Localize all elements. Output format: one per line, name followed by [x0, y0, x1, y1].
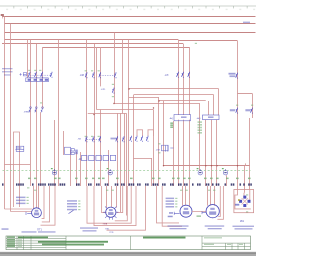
- PE connection circle x110.25: [108, 171, 112, 175]
- stub: [245, 163, 247, 165]
- label: [166, 206, 175, 208]
- motor2 SE lead: [115, 186, 128, 221]
- wire: [117, 113, 119, 186]
- wire: [208, 101, 210, 115]
- svg-text:ПЛВ: ПЛВ: [103, 224, 108, 226]
- label: [67, 206, 77, 208]
- breaker QF pole 3: [41, 72, 43, 78]
- wire: [133, 95, 135, 186]
- thermal relay box 5: [110, 155, 115, 160]
- pin number texts: [28, 178, 31, 180]
- wire: [10, 24, 12, 212]
- wire: [192, 211, 206, 213]
- red return wire: [107, 186, 146, 230]
- wire: [126, 113, 128, 215]
- label: [16, 203, 26, 205]
- motor M3: [180, 205, 192, 217]
- motor2 caption line2: [83, 230, 97, 231]
- breaker QF aux contact: [50, 72, 52, 78]
- doc title line1: [38, 241, 108, 243]
- wire: [27, 40, 29, 78]
- PS1 marks: [75, 150, 78, 155]
- wire: [36, 44, 38, 186]
- motor1 right loops: [42, 186, 44, 219]
- switch 4PV2 contact: [236, 73, 238, 79]
- enclosure loop left: [14, 132, 20, 207]
- pin text: [170, 125, 173, 126]
- pin text: [170, 123, 173, 124]
- wire: [63, 131, 65, 155]
- wire: [36, 186, 38, 208]
- thermal relay box 1: [82, 155, 87, 160]
- bus start label: [1, 14, 4, 16]
- motor2 caption line1: [80, 227, 98, 228]
- wire: [54, 120, 56, 186]
- link H4: [159, 100, 206, 102]
- wire: [207, 186, 209, 206]
- link H1: [129, 88, 219, 90]
- thermal relay box 2: [89, 155, 94, 160]
- contact B: [122, 136, 124, 142]
- motor3 inner: [184, 208, 188, 210]
- wire: [58, 40, 60, 186]
- PE connection circle x200.25: [198, 171, 202, 175]
- contactor KL pole 3: [188, 72, 190, 78]
- svg-text:-АQ: -АQ: [169, 117, 173, 120]
- wire: [182, 186, 184, 206]
- wire: [216, 120, 218, 186]
- wire: [128, 40, 130, 186]
- title block verticals: [17, 236, 245, 250]
- wire: [252, 94, 254, 119]
- motor3 caption line2: [170, 228, 187, 229]
- motor3 left loops: [157, 186, 180, 223]
- bridge internal wiring: [235, 190, 251, 209]
- motor4 caption line1: [205, 225, 225, 226]
- pair label: [111, 138, 117, 140]
- pin text: [198, 127, 203, 129]
- wire: [106, 186, 108, 208]
- link H3b: [129, 97, 159, 99]
- wire: [122, 40, 124, 114]
- left edge tag: [2, 228, 9, 230]
- AQ box inner text: [181, 116, 187, 118]
- svg-text:ПТ1: ПТ1: [37, 229, 42, 232]
- label: [67, 209, 77, 211]
- wire: [178, 120, 180, 186]
- feeder C: [43, 47, 190, 49]
- drop x96.5: [96, 47, 98, 110]
- contact A: [116, 136, 118, 142]
- contact Q4: [146, 136, 148, 142]
- PE dashed line: [3, 170, 251, 172]
- wire: [178, 40, 180, 115]
- wire: [211, 120, 213, 186]
- contact KL1: [112, 88, 114, 94]
- label: [16, 197, 26, 199]
- wire: [158, 98, 160, 187]
- label: [4, 74, 11, 75]
- label: [2, 71, 13, 72]
- contact KV 3: [99, 136, 101, 142]
- aux contact right1: [236, 108, 238, 114]
- device AQ2 box: [203, 115, 220, 120]
- right head: [204, 237, 222, 238]
- device PS1: [65, 147, 71, 154]
- aux 4B1 label: [230, 109, 235, 111]
- motor2 bottom rail 1: [87, 186, 131, 223]
- contact KV 2: [92, 136, 94, 142]
- svg-text:-КМ: -КМ: [156, 150, 160, 152]
- label: [2, 68, 13, 69]
- diode bridge ZB1: [243, 196, 246, 199]
- motor M4: [206, 205, 219, 218]
- contactor KM pole 1: [85, 72, 87, 78]
- switch 4PV2 label line1: [229, 73, 236, 75]
- junction dots: [93, 114, 94, 115]
- right caption line2: [235, 228, 253, 229]
- wire: [185, 186, 187, 205]
- bus L3: [5, 32, 256, 34]
- wire: [33, 186, 35, 209]
- contact Q1: [130, 136, 132, 142]
- label: [16, 200, 26, 202]
- wire: [183, 44, 185, 115]
- wire: [76, 152, 78, 186]
- wire: [94, 44, 96, 186]
- PE connection circle x54.5: [52, 171, 56, 175]
- breaker QF pole 1: [28, 72, 30, 78]
- contact KV 1: [85, 136, 87, 142]
- doc title line2: [42, 244, 104, 246]
- wire: [40, 112, 42, 186]
- pin text: [198, 121, 203, 123]
- label: [67, 200, 77, 202]
- wire: [173, 121, 175, 186]
- wire: [214, 186, 216, 206]
- app background below page: [0, 252, 256, 256]
- coil KM: [162, 145, 169, 151]
- link H5: [114, 103, 200, 105]
- frame ruler numerals: [6, 9, 8, 10]
- breaker QF pole 2: [34, 72, 36, 78]
- wire: [111, 186, 113, 207]
- pin text: [198, 132, 203, 134]
- title block rows left: [6, 238, 66, 247]
- aux 4B2 label: [245, 109, 250, 111]
- wire: [38, 186, 40, 209]
- wire to motor1 from col 4.5: [5, 208, 33, 210]
- doc number: [18, 237, 48, 239]
- pin text: [170, 127, 173, 128]
- frame ruler ticks: [14, 6, 247, 8]
- wire: [210, 186, 212, 205]
- disconnect symbols chain: [20, 73, 27, 76]
- wire: [120, 113, 122, 212]
- title block cell texts: [7, 237, 15, 238]
- wire: [100, 47, 102, 86]
- heater fill: [16, 147, 21, 149]
- bracket mark: [69, 210, 74, 213]
- svg-text:-КЛ: -КЛ: [165, 74, 169, 77]
- pin text: [198, 129, 203, 131]
- pin texts under label: [180, 190, 182, 191]
- wire: [42, 47, 44, 108]
- wire: [199, 104, 201, 171]
- wire: [163, 101, 165, 166]
- wire: [151, 158, 153, 186]
- wire: [244, 166, 246, 193]
- motor2 inner: [109, 209, 113, 211]
- wire: [124, 113, 126, 186]
- svg-text:-КЛ1: -КЛ1: [101, 89, 106, 91]
- motor2 lead stubs: [103, 207, 118, 220]
- contactor KL pole 2: [182, 72, 184, 78]
- feeder A2: [178, 40, 237, 42]
- switch 4PV2 label line2: [230, 75, 236, 77]
- link H2: [134, 94, 214, 96]
- motor3 left lead: [174, 212, 180, 215]
- motor2 W lead: [102, 186, 107, 213]
- label: [166, 198, 175, 200]
- wire: [213, 95, 215, 115]
- pin text: [198, 124, 203, 126]
- bus L1: [2, 16, 256, 18]
- wire: [100, 110, 102, 186]
- wire: [218, 89, 220, 115]
- wire: [86, 40, 88, 186]
- contact Q2: [135, 136, 137, 142]
- thermal relay box 4: [103, 155, 108, 160]
- KM aux contact: [114, 72, 116, 78]
- cable tag NSh: [169, 212, 173, 214]
- contactor KM pole 2: [92, 72, 94, 78]
- breaker linkage dashes: [30, 74, 52, 76]
- wire: [249, 118, 251, 190]
- jumper loop 1: [137, 130, 143, 136]
- motor1 inner: [35, 210, 39, 212]
- jumper loop 2: [148, 130, 154, 136]
- wire: [80, 152, 82, 186]
- wire: [2, 17, 4, 19]
- motor2 E lead: [117, 186, 123, 213]
- thermal block box: [26, 78, 49, 82]
- contactor KM pole 3: [99, 72, 101, 78]
- bus tag right: [243, 22, 250, 24]
- wire: [183, 120, 185, 186]
- motor1 ground lead: [26, 212, 32, 215]
- KM linkage dashes: [100, 75, 114, 77]
- tag 2V-1: [235, 204, 239, 206]
- svg-text:-АQ: -АQ: [197, 117, 201, 120]
- cell1: [227, 244, 231, 245]
- thermal relay box 3: [96, 155, 101, 160]
- PE collector right: [163, 165, 250, 167]
- motor3 caption line1: [168, 225, 189, 226]
- motor4 caption line2: [208, 228, 222, 229]
- wire: [70, 150, 72, 186]
- aux contact right2: [251, 108, 253, 114]
- wire: [237, 41, 239, 190]
- wire: [4, 17, 6, 210]
- cable tag ULK: [168, 216, 173, 218]
- fuse switch 3: [42, 107, 44, 109]
- svg-text:-КВ: -КВ: [77, 139, 81, 141]
- label: [166, 203, 175, 205]
- fuse switch 1: [30, 107, 32, 109]
- wire: [226, 175, 228, 186]
- right caption line1: [233, 226, 255, 227]
- contact Q3: [141, 136, 143, 142]
- wire: [116, 186, 118, 208]
- link H8: [134, 158, 152, 160]
- wire: [30, 40, 32, 186]
- svg-text:-КМ: -КМ: [80, 74, 84, 77]
- heater element EK: [16, 146, 24, 151]
- device AQ box: [174, 115, 191, 121]
- feeder A: [5, 39, 179, 41]
- wire: [153, 110, 155, 186]
- contactor KL pole 1: [177, 72, 179, 78]
- motor1 description b: [38, 231, 56, 232]
- AQ2 box inner text: [208, 116, 214, 118]
- motor1 description: [22, 231, 37, 232]
- wire: [189, 47, 191, 115]
- wire: [189, 186, 191, 206]
- schema type text: [143, 237, 186, 239]
- frame top ruler line: [0, 5, 256, 7]
- wire: [189, 120, 191, 186]
- fuse switch 2: [35, 107, 37, 109]
- cell2: [239, 244, 243, 245]
- wire: [114, 33, 116, 104]
- PE connection circle x225.5: [223, 171, 227, 175]
- feeder B: [2, 43, 183, 45]
- wire: [108, 150, 110, 186]
- motor M2: [106, 207, 116, 217]
- corner link right: [238, 93, 253, 95]
- PE collector left: [5, 164, 31, 166]
- title block outer: [6, 236, 251, 250]
- cabinet rect ZB1: [234, 190, 254, 213]
- link H7: [88, 113, 127, 115]
- wire to motor1 from col 10.5: [11, 211, 32, 213]
- motor2 bottom rail 2: [94, 186, 136, 226]
- bus L2: [5, 23, 256, 25]
- wire: [205, 120, 207, 186]
- motor4 inner: [210, 208, 214, 210]
- wire number label row: [2, 183, 4, 185]
- list label: [204, 244, 214, 245]
- label: [166, 200, 175, 202]
- link H6: [97, 109, 154, 111]
- motor M1 PT1: [32, 208, 42, 218]
- label: [67, 203, 77, 205]
